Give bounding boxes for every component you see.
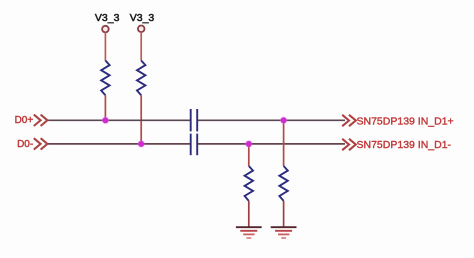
wire: D0+ line down across D0- to resistor R4 [283, 120, 285, 166]
wire: R3 bottom to ground [248, 201, 250, 227]
resistor R2 (pull-up, right) [137, 61, 145, 96]
resistor R1 (pull-up, left) [101, 61, 109, 96]
wire: left V3_3 circle to resistor R1 [104, 32, 106, 60]
wire: D0- horizontal (left of coupling cap C2) [48, 143, 191, 145]
svg-text:V3_3: V3_3 [130, 12, 155, 24]
wire: R1 bottom to D0+ line [104, 95, 106, 120]
junction dot: R1 on D0+ [102, 117, 109, 124]
svg-text:V3_3: V3_3 [95, 12, 120, 24]
junction dot: R2 on D0- [138, 140, 145, 147]
power symbol circle (right V3_3) [138, 26, 145, 33]
wire: D0+ horizontal (left of coupling cap C1) [48, 119, 191, 121]
wire: right V3_3 circle to resistor R2 [140, 32, 142, 61]
port chevron: IN_D1+ (right) [342, 115, 356, 126]
junction dot: R4 on D0+ [280, 117, 287, 124]
capacitor C2 (series in D0- line) [191, 134, 198, 156]
capacitor C1 (series in D0+ line) [191, 109, 198, 131]
port chevron: D0- (left) [34, 138, 48, 149]
junction dot: R3 on D0- [245, 140, 252, 147]
wire: R4 bottom to ground [283, 201, 285, 227]
power symbol circle (left V3_3) [102, 26, 109, 33]
svg-text:SN75DP139 IN_D1+: SN75DP139 IN_D1+ [357, 115, 454, 127]
wire: D0- line down to resistor R3 [248, 144, 250, 166]
wire: R2 bottom across D0+ to D0- line [140, 95, 142, 144]
svg-text:SN75DP139 IN_D1-: SN75DP139 IN_D1- [357, 139, 452, 151]
ground symbol (right) [271, 227, 297, 238]
port chevron: IN_D1- (right) [342, 139, 356, 150]
port chevron: D0+ (left) [34, 115, 48, 126]
resistor R4 (termination, right) [279, 166, 287, 201]
wire: D0+ horizontal (right of coupling cap C1) [198, 119, 345, 121]
svg-text:D0-: D0- [17, 139, 33, 150]
resistor R3 (termination, left) [245, 166, 253, 201]
svg-text:D0+: D0+ [15, 115, 34, 126]
ground symbol (left) [236, 227, 262, 238]
wire: D0- horizontal (right of coupling cap C2) [198, 143, 345, 145]
